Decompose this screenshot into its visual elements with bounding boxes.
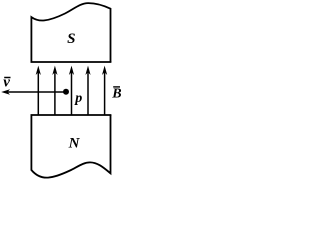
field line 5 bbox=[104, 71, 106, 115]
svg-text:S: S bbox=[67, 31, 75, 47]
svg-text:B: B bbox=[111, 87, 121, 102]
field line 2 bbox=[54, 71, 56, 115]
field line 3 bbox=[71, 71, 73, 115]
magnet pole block N (bottom) bbox=[31, 115, 110, 178]
svg-text:p: p bbox=[74, 91, 82, 106]
field line 4 bbox=[87, 71, 89, 115]
velocity arrow (points left) bbox=[6, 91, 66, 93]
magnet pole block S (top) bbox=[31, 3, 110, 62]
svg-text:N: N bbox=[68, 136, 81, 152]
point P dot bbox=[63, 89, 69, 95]
S block bottom edge bbox=[31, 61, 112, 63]
field line 1 bbox=[37, 71, 39, 115]
N block top edge bbox=[31, 114, 112, 116]
